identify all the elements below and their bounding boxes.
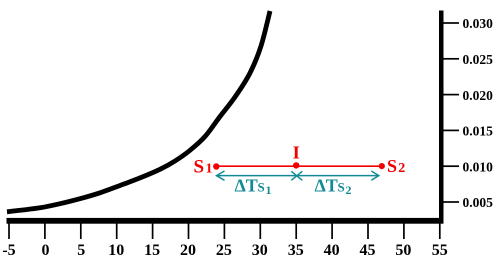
y tick 0.030: [444, 22, 460, 24]
svg-text:S: S: [258, 180, 265, 195]
svg-text:0.010: 0.010: [463, 159, 494, 174]
red segment S1-S2: [216, 165, 381, 167]
svg-text:45: 45: [360, 242, 376, 259]
y tick 0.010: [444, 165, 460, 167]
svg-text:2: 2: [398, 161, 405, 176]
svg-text:50: 50: [395, 242, 411, 259]
x tick 35: [295, 224, 297, 240]
y tick 0.005: [444, 201, 460, 203]
svg-text:S: S: [338, 180, 345, 195]
x-axis bar: [7, 218, 444, 224]
svg-text:-5: -5: [2, 242, 15, 259]
svg-text:1: 1: [266, 183, 272, 197]
point S1: [213, 163, 219, 169]
svg-text:10: 10: [108, 242, 124, 259]
x tick -5: [8, 224, 10, 240]
saturation curve: [7, 11, 270, 212]
label S1: [194, 157, 213, 178]
x tick 0: [44, 224, 46, 240]
x tick 5: [80, 224, 82, 240]
svg-text:25: 25: [216, 242, 232, 259]
x tick 50: [403, 224, 405, 240]
x tick 30: [259, 224, 261, 240]
arrow line dTs2: [297, 171, 379, 180]
label dTs2: [315, 176, 352, 198]
x tick 45: [367, 224, 369, 240]
arrow line dTs1: [217, 171, 303, 180]
svg-text:S: S: [387, 156, 397, 176]
svg-text:ΔT: ΔT: [235, 176, 258, 196]
x tick 10: [116, 224, 118, 240]
y tick 0.015: [444, 129, 460, 131]
svg-text:2: 2: [346, 183, 352, 197]
svg-text:S: S: [194, 157, 205, 178]
svg-text:0.005: 0.005: [463, 195, 494, 210]
svg-text:5: 5: [77, 242, 85, 259]
svg-text:ΔT: ΔT: [315, 176, 338, 196]
svg-text:20: 20: [180, 242, 196, 259]
svg-text:15: 15: [144, 242, 160, 259]
y tick 0.020: [444, 94, 460, 96]
y-axis bar (right): [439, 11, 444, 224]
svg-text:55: 55: [432, 242, 448, 259]
svg-text:0.020: 0.020: [463, 88, 494, 103]
svg-text:30: 30: [252, 242, 268, 259]
x tick 20: [188, 224, 190, 240]
svg-text:I: I: [293, 142, 300, 162]
svg-text:0: 0: [42, 242, 50, 259]
svg-text:0.015: 0.015: [463, 124, 494, 139]
svg-text:40: 40: [324, 242, 340, 259]
x tick 25: [223, 224, 225, 240]
svg-text:0.025: 0.025: [463, 52, 494, 67]
label S2: [387, 156, 405, 176]
x tick 15: [152, 224, 154, 240]
x tick 40: [331, 224, 333, 240]
svg-text:0.030: 0.030: [463, 16, 494, 31]
point S2: [379, 163, 385, 169]
point I: [293, 162, 299, 168]
svg-text:35: 35: [288, 242, 304, 259]
y tick 0.025: [444, 58, 460, 60]
label dTs1: [235, 176, 272, 198]
x tick 55: [439, 224, 441, 240]
svg-text:1: 1: [206, 162, 213, 177]
